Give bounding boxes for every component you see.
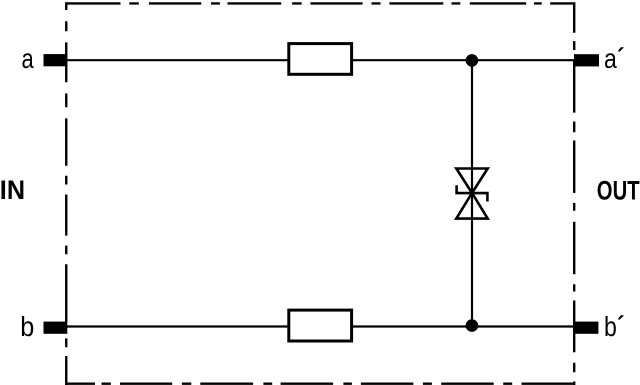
resistor R1 (series impedance, top line) bbox=[289, 44, 352, 75]
wire vertical branch (shunt path) bbox=[471, 60, 473, 326]
svg-text:IN: IN bbox=[0, 175, 25, 205]
terminal a (black block) bbox=[44, 54, 68, 66]
terminal a' (black block) bbox=[574, 54, 599, 66]
terminal b' (black block) bbox=[574, 322, 598, 334]
wire b to b' (bottom conductor) bbox=[45, 325, 598, 327]
svg-text:b´: b´ bbox=[604, 310, 625, 342]
node junction dot top bbox=[466, 54, 479, 67]
suppressor diode V1 lower triangle bbox=[456, 193, 487, 219]
enclosure dash-dot border bottom bbox=[65, 383, 574, 385]
terminal b (black block) bbox=[44, 322, 68, 334]
enclosure dash-dot border left bbox=[65, 2, 67, 385]
svg-text:b: b bbox=[20, 311, 34, 342]
enclosure dash-dot border top bbox=[66, 2, 574, 4]
svg-text:OUT: OUT bbox=[597, 175, 640, 205]
svg-text:a: a bbox=[22, 43, 35, 74]
node junction dot bottom bbox=[466, 319, 479, 332]
svg-text:a´: a´ bbox=[604, 42, 625, 74]
suppressor diode V1 upper triangle bbox=[456, 169, 487, 194]
resistor R2 (series impedance, bottom line) bbox=[289, 310, 352, 341]
enclosure dash-dot border right bbox=[573, 2, 575, 385]
suppressor diode V1 breakdown bar (z-shaped electrode) bbox=[457, 185, 488, 201]
wire a to a' (top conductor) bbox=[45, 59, 598, 61]
